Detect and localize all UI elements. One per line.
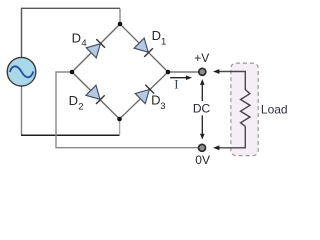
wire bridge arm top-right (D1 arm) [120,24,168,72]
terminal +V [199,68,206,75]
diode D1 (top node to right node) [134,38,153,57]
AC source V1 [7,57,36,86]
wire AC top loop: source top up, across [22,8,121,57]
resistor (load) [241,90,250,127]
svg-text:D: D [152,28,161,43]
wire load top with arrow to +V [213,69,245,90]
svg-text:+V: +V [194,51,209,65]
svg-text:I: I [174,77,178,92]
wire bridge arm left-top (D4 arm) [72,24,120,72]
diode D4 (left node to top node) [86,39,105,58]
diode D3 (bottom node to right node) [135,85,154,104]
svg-text:D: D [151,93,160,108]
load dashed box [231,63,258,156]
node bottom [117,117,122,122]
current arrow I [170,75,192,80]
svg-text:2: 2 [78,101,83,112]
wire 0V path: left node left, down, across to 0V terminal [56,72,198,148]
wire stub up to bridge bottom node [119,119,121,135]
DC arrow down (to 0V) [200,115,205,139]
wire bridge arm bottom-right (D3 arm) [120,72,169,119]
diode D2 (left node to bottom node) [86,85,105,104]
svg-text:4: 4 [81,38,86,49]
wire AC source bottom down [21,86,23,135]
svg-text:Load: Load [261,103,288,117]
wire drop to bridge top node [119,9,121,24]
svg-text:DC: DC [193,102,211,116]
svg-text:3: 3 [160,101,165,112]
terminal 0V [199,144,206,151]
node left [70,70,75,75]
DC arrow up (to +V) [200,79,205,101]
wire load bottom with arrow to 0V [213,126,245,150]
wire bridge arm left-bottom (D2 arm) [72,72,120,119]
svg-text:D: D [69,93,78,108]
wire bottom horizontal to under bridge [21,134,120,136]
node right [166,70,171,75]
node top [118,22,123,27]
svg-text:D: D [72,31,81,46]
wire right node to +V terminal [168,71,198,73]
svg-text:1: 1 [161,36,166,47]
svg-text:0V: 0V [195,153,210,167]
